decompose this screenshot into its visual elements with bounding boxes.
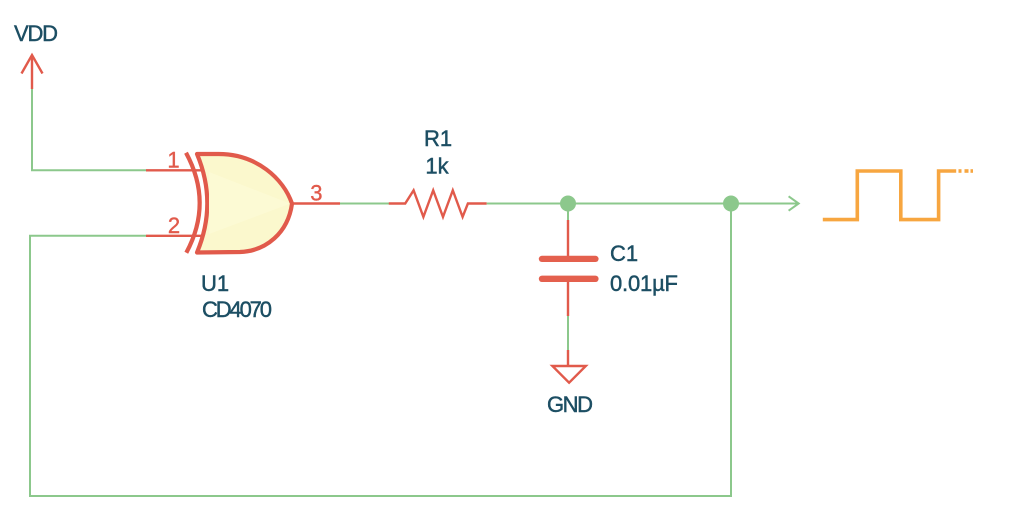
svg-text:1k: 1k [425,154,449,179]
svg-text:CD4070: CD4070 [202,297,272,322]
svg-text:R1: R1 [424,126,452,151]
svg-text:C1: C1 [610,241,638,266]
svg-text:3: 3 [310,181,322,206]
svg-text:U1: U1 [201,271,229,296]
svg-text:1: 1 [167,148,179,173]
svg-text:GND: GND [547,392,593,417]
svg-text:2: 2 [168,213,180,238]
svg-text:0.01µF: 0.01µF [610,271,678,296]
svg-text:VDD: VDD [14,21,58,46]
